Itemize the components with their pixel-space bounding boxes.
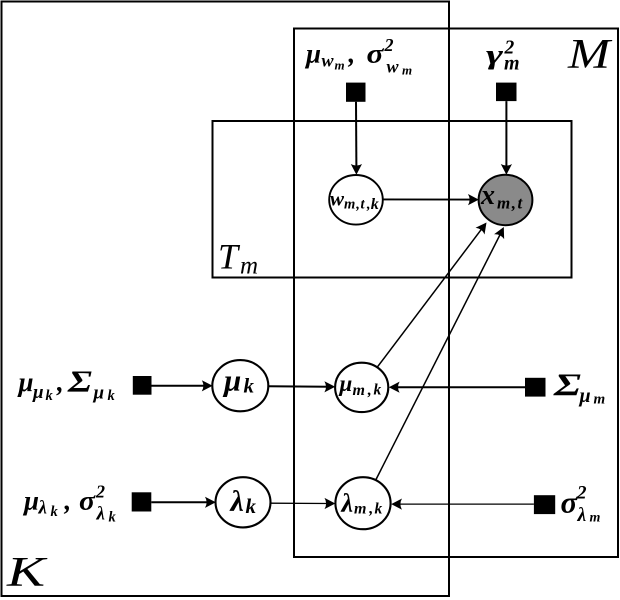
arrow sigma2_lamm square to lam_mk bbox=[391, 499, 534, 510]
node lam_k bbox=[216, 477, 271, 527]
svg-text:k: k bbox=[46, 388, 54, 404]
svg-text:μ: μ bbox=[339, 371, 353, 396]
arrow mu_k to mu_mk bbox=[268, 381, 335, 392]
plate Tm label bbox=[218, 237, 258, 280]
svg-text:k: k bbox=[374, 382, 382, 399]
arrow mu_wm square to w_mtk bbox=[351, 102, 362, 175]
svg-text:μ: μ bbox=[17, 367, 34, 397]
svg-text:M: M bbox=[567, 32, 613, 78]
svg-text:,: , bbox=[511, 194, 516, 213]
svg-text:,: , bbox=[64, 486, 72, 516]
svg-text:,: , bbox=[355, 197, 360, 213]
param label mu_lamk sigma2_lamk bbox=[22, 482, 117, 526]
param label gamma2_m bbox=[486, 38, 520, 75]
svg-text:m: m bbox=[590, 511, 601, 526]
param label mu_muk Sigma_muk bbox=[17, 364, 116, 405]
plate K bbox=[2, 2, 450, 597]
svg-text:m: m bbox=[335, 58, 345, 73]
svg-text:σ: σ bbox=[561, 485, 579, 520]
svg-text:k: k bbox=[108, 388, 116, 404]
param square mu_muk Sigma_muk bbox=[133, 376, 152, 395]
plate M bbox=[294, 29, 618, 558]
param square sigma2_lamm bbox=[534, 495, 555, 514]
arrow mu_lamk square to lam_k bbox=[151, 497, 216, 508]
svg-text:λ: λ bbox=[38, 498, 47, 519]
svg-text:w: w bbox=[330, 187, 345, 211]
svg-text:λ: λ bbox=[341, 489, 354, 518]
plate Tm bbox=[213, 121, 572, 278]
svg-text:T: T bbox=[218, 237, 241, 277]
svg-text:λ: λ bbox=[577, 505, 587, 526]
svg-text:λ: λ bbox=[229, 485, 244, 518]
svg-text:k: k bbox=[375, 500, 383, 517]
svg-text:m: m bbox=[354, 500, 366, 517]
svg-text:m: m bbox=[594, 392, 606, 408]
svg-text:σ: σ bbox=[79, 486, 97, 516]
svg-text:,: , bbox=[368, 500, 373, 517]
svg-text:x: x bbox=[480, 180, 495, 211]
param label Sigma_mum bbox=[553, 367, 606, 408]
svg-text:μ: μ bbox=[22, 486, 39, 516]
svg-text:m: m bbox=[240, 253, 258, 280]
svg-text:w: w bbox=[387, 57, 400, 77]
svg-text:k: k bbox=[109, 510, 117, 526]
param label sigma2_lamm bbox=[561, 483, 601, 527]
svg-text:m: m bbox=[402, 63, 412, 78]
svg-text:μ: μ bbox=[579, 385, 591, 407]
svg-text:Σ: Σ bbox=[553, 367, 582, 403]
node lam_mk bbox=[335, 477, 390, 529]
param label mu_wm sigma2_wm bbox=[304, 35, 412, 78]
svg-text:2: 2 bbox=[384, 35, 394, 55]
svg-text:γ: γ bbox=[486, 40, 504, 70]
svg-text:2: 2 bbox=[576, 483, 587, 504]
svg-text:w: w bbox=[322, 51, 335, 71]
svg-text:,: , bbox=[56, 367, 64, 397]
node x_mt (observed, shaded) bbox=[479, 175, 533, 225]
node mu_k bbox=[212, 360, 268, 411]
node mu_mk bbox=[335, 363, 388, 412]
arrow lam_k to lam_mk bbox=[271, 498, 336, 509]
svg-text:k: k bbox=[371, 196, 379, 213]
svg-text:μ: μ bbox=[304, 39, 321, 69]
svg-text:σ: σ bbox=[367, 39, 386, 69]
svg-text:Σ: Σ bbox=[67, 364, 92, 399]
svg-text:λ: λ bbox=[96, 504, 105, 525]
arrow lam_mk to x_mt (diagonal) bbox=[376, 225, 509, 481]
svg-text:μ: μ bbox=[222, 363, 241, 398]
svg-text:m: m bbox=[344, 197, 355, 213]
svg-text:K: K bbox=[6, 550, 48, 596]
svg-text:m: m bbox=[353, 382, 365, 399]
svg-text:μ: μ bbox=[32, 382, 44, 403]
svg-text:2: 2 bbox=[95, 482, 105, 502]
param square Sigma_mum bbox=[525, 378, 546, 397]
svg-text:k: k bbox=[51, 504, 59, 520]
arrow w_mtk to x_mt bbox=[383, 194, 479, 205]
svg-text:m: m bbox=[497, 194, 510, 213]
arrow Sigma_mum square to mu_mk bbox=[389, 382, 525, 393]
svg-text:,: , bbox=[367, 382, 372, 399]
arrow gamma2_m square to x_mt bbox=[501, 101, 512, 175]
param square mu_wm sigma2_wm bbox=[346, 83, 366, 102]
node w_mtk bbox=[329, 175, 383, 225]
svg-text:k: k bbox=[246, 494, 257, 518]
arrow mu_mk to x_mt (diagonal) bbox=[377, 219, 491, 367]
svg-text:m: m bbox=[504, 53, 520, 75]
arrow mu_muk square to mu_k bbox=[152, 380, 213, 391]
svg-text:μ: μ bbox=[93, 383, 105, 404]
svg-text:k: k bbox=[244, 374, 255, 398]
param square mu_lamk sigma2_lamk bbox=[132, 492, 152, 511]
svg-text:,: , bbox=[348, 39, 356, 69]
param square gamma2_m bbox=[496, 83, 517, 102]
